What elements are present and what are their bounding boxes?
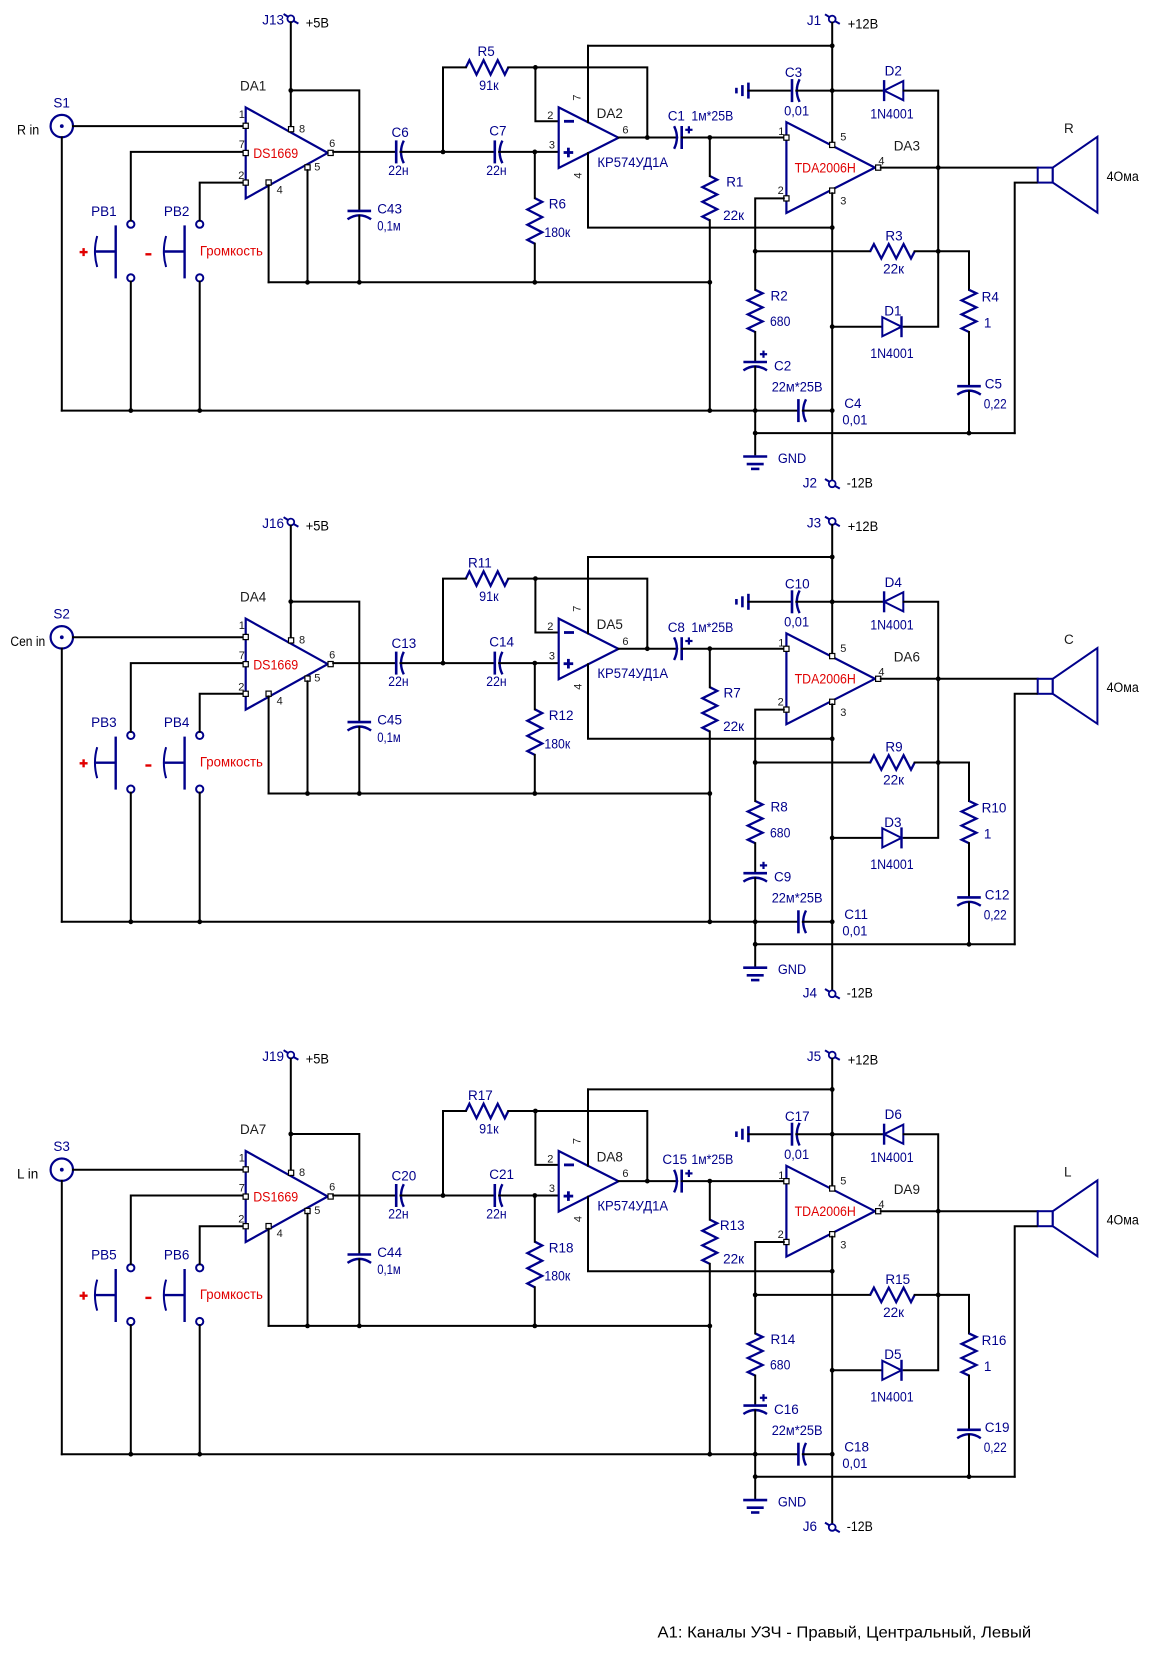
wire <box>199 793 201 922</box>
wire <box>587 557 589 633</box>
wire <box>307 681 309 793</box>
svg-text:4: 4 <box>572 172 584 178</box>
wire <box>269 281 710 283</box>
wire <box>401 662 494 664</box>
svg-text:1: 1 <box>778 126 784 138</box>
svg-text:S3: S3 <box>53 1139 70 1154</box>
resistor R18 <box>527 1240 573 1287</box>
svg-text:3: 3 <box>840 707 846 719</box>
svg-text:0,1м: 0,1м <box>377 730 401 745</box>
svg-text:1N4001: 1N4001 <box>870 1389 914 1404</box>
wire <box>803 410 832 412</box>
svg-text:1: 1 <box>984 1359 992 1374</box>
svg-text:7: 7 <box>239 650 245 662</box>
svg-text:6: 6 <box>622 1168 628 1180</box>
svg-text:D6: D6 <box>885 1107 902 1122</box>
ground <box>736 1126 748 1142</box>
junction <box>357 791 362 796</box>
svg-text:8: 8 <box>299 635 305 647</box>
resistor R4 <box>962 290 1000 333</box>
wire <box>200 183 243 221</box>
wire <box>881 167 1038 169</box>
pin 1 <box>778 126 789 140</box>
capacitor C14 <box>486 635 514 690</box>
wire <box>709 1264 711 1454</box>
wire <box>968 1435 970 1477</box>
wire <box>291 1134 360 1254</box>
capacitor C5 <box>957 376 1007 411</box>
pin 6 <box>328 138 335 155</box>
svg-text:S2: S2 <box>53 607 70 622</box>
wire <box>333 1195 395 1197</box>
wire <box>443 579 466 664</box>
wire <box>619 648 678 650</box>
svg-text:C10: C10 <box>785 576 810 591</box>
junction <box>753 431 758 436</box>
pin 1 <box>239 620 249 640</box>
junction <box>357 1324 362 1329</box>
resistor R11 <box>466 555 508 604</box>
wire <box>401 1195 494 1197</box>
pin 6 <box>328 1182 335 1199</box>
capacitor C11 <box>798 907 868 939</box>
resistor R5 <box>466 44 508 93</box>
svg-text:180к: 180к <box>544 736 570 751</box>
svg-text:R: R <box>1064 121 1074 136</box>
wire <box>796 1133 832 1135</box>
svg-text:0,01: 0,01 <box>784 103 809 118</box>
ground GND <box>743 433 806 469</box>
resistor R14 <box>748 1332 796 1376</box>
capacitor C45 <box>348 713 402 745</box>
wire <box>61 1181 63 1454</box>
svg-text:C7: C7 <box>489 123 506 138</box>
resistor R12 <box>527 708 573 755</box>
svg-text:R17: R17 <box>468 1088 493 1103</box>
wire <box>443 1111 466 1196</box>
svg-text:C9: C9 <box>774 870 791 885</box>
resistor R6 <box>527 197 570 244</box>
svg-text:22н: 22н <box>388 674 408 689</box>
wire <box>904 91 939 168</box>
wire <box>535 1111 558 1165</box>
wire <box>1015 694 1037 945</box>
wire <box>61 137 63 410</box>
junction <box>533 576 538 581</box>
pin 2 <box>238 170 248 185</box>
svg-text:DS1669: DS1669 <box>253 1190 298 1205</box>
pin 3 <box>830 699 847 719</box>
speaker C 4Ома <box>1038 632 1140 724</box>
label - <box>145 253 151 255</box>
wire <box>62 410 799 412</box>
junction <box>197 919 202 924</box>
svg-text:0,01: 0,01 <box>784 615 809 630</box>
push button PB6 <box>164 1248 203 1326</box>
wire <box>904 1134 939 1211</box>
svg-text:DA5: DA5 <box>597 617 623 632</box>
svg-text:R6: R6 <box>549 197 566 212</box>
pin 3 <box>830 188 847 208</box>
wire <box>268 1229 270 1326</box>
svg-text:DA1: DA1 <box>240 78 266 93</box>
svg-text:R5: R5 <box>478 44 495 59</box>
resistor R9 <box>870 740 915 788</box>
svg-text:+5В: +5В <box>306 16 329 31</box>
capacitor C20 <box>388 1169 416 1222</box>
svg-text:-12В: -12В <box>847 476 873 491</box>
wire <box>832 601 884 603</box>
svg-text:PB6: PB6 <box>164 1248 190 1263</box>
svg-text:D1: D1 <box>884 304 901 319</box>
svg-text:+12В: +12В <box>848 17 879 32</box>
svg-text:4: 4 <box>878 667 884 679</box>
wire <box>307 1214 309 1326</box>
resistor R10 <box>962 801 1007 844</box>
wire <box>832 326 882 328</box>
junction <box>753 1452 758 1457</box>
pin 6 label <box>622 1168 628 1180</box>
wire <box>968 1376 970 1430</box>
wire <box>796 90 832 92</box>
svg-text:22к: 22к <box>723 208 744 223</box>
svg-text:4: 4 <box>878 1199 884 1211</box>
label + <box>80 759 88 767</box>
junction <box>707 1452 712 1457</box>
power amplifier DA3 TDA2006H <box>786 122 920 213</box>
junction <box>936 676 941 681</box>
svg-text:А1: Каналы УЗЧ - Правый, Центр: А1: Каналы УЗЧ - Правый, Центральный, Ле… <box>658 1624 1032 1641</box>
svg-text:680: 680 <box>770 314 790 329</box>
junction <box>753 1293 758 1298</box>
wire <box>831 193 833 480</box>
svg-text:6: 6 <box>622 125 628 137</box>
resistor R8 <box>748 800 791 844</box>
junction <box>830 408 835 413</box>
svg-text:3: 3 <box>549 1183 555 1195</box>
pin 1 <box>778 637 789 651</box>
pin 5 <box>830 132 847 148</box>
svg-text:680: 680 <box>770 1358 790 1373</box>
junction <box>288 599 293 604</box>
push button PB1 <box>91 204 134 282</box>
diode D3 1N4001 <box>870 815 914 872</box>
wire <box>200 694 243 732</box>
svg-text:2: 2 <box>778 1229 784 1241</box>
junction <box>707 791 712 796</box>
wire <box>915 1295 969 1334</box>
caption <box>658 1624 1032 1641</box>
svg-text:TDA2006H: TDA2006H <box>795 672 856 687</box>
svg-text:J6: J6 <box>803 1519 817 1534</box>
svg-text:-12В: -12В <box>847 986 873 1001</box>
junction <box>707 135 712 140</box>
junction <box>830 836 835 841</box>
svg-text:0,01: 0,01 <box>784 1147 809 1162</box>
resistor R15 <box>870 1272 915 1320</box>
junction <box>533 1109 538 1114</box>
svg-text:3: 3 <box>840 1239 846 1251</box>
svg-text:C13: C13 <box>392 636 417 651</box>
svg-text:D4: D4 <box>885 575 903 590</box>
svg-text:7: 7 <box>572 1138 584 1144</box>
wire <box>754 367 756 433</box>
svg-text:R16: R16 <box>982 1333 1007 1348</box>
wire <box>499 151 559 153</box>
wire <box>588 556 832 558</box>
svg-text:0,22: 0,22 <box>984 397 1007 412</box>
wire <box>831 1059 833 1186</box>
svg-text:PB5: PB5 <box>91 1248 117 1263</box>
junction <box>707 1324 712 1329</box>
junction <box>830 324 835 329</box>
wire <box>358 216 360 282</box>
svg-text:680: 680 <box>770 825 790 840</box>
svg-text:2: 2 <box>547 110 553 122</box>
svg-text:R18: R18 <box>549 1240 574 1255</box>
connector J5 +12V <box>807 1049 878 1068</box>
junction <box>305 1324 310 1329</box>
svg-text:R9: R9 <box>885 740 902 755</box>
wire <box>968 843 970 897</box>
svg-text:1: 1 <box>239 620 245 632</box>
svg-text:DA9: DA9 <box>894 1182 920 1197</box>
connector J3 +12V <box>807 516 878 535</box>
svg-text:22н: 22н <box>388 1207 408 1222</box>
wire <box>1015 1226 1037 1477</box>
wire <box>508 67 647 137</box>
junction <box>830 1368 835 1373</box>
svg-text:S1: S1 <box>53 95 70 110</box>
svg-text:J1: J1 <box>807 13 821 28</box>
ground GND <box>743 944 806 980</box>
svg-text:5: 5 <box>314 1205 320 1217</box>
digital potentiometer DA1 DS1669 <box>240 78 328 198</box>
svg-text:22к: 22к <box>883 773 904 788</box>
wire <box>535 579 558 633</box>
junction <box>753 919 758 924</box>
capacitor C12 <box>957 888 1009 923</box>
svg-text:4: 4 <box>277 184 283 196</box>
svg-text:4Ома: 4Ома <box>1107 169 1140 184</box>
svg-text:7: 7 <box>239 139 245 151</box>
svg-text:Громкость: Громкость <box>200 244 263 259</box>
junction <box>936 249 941 254</box>
pin 2 label <box>547 1153 553 1165</box>
junction <box>936 165 941 170</box>
svg-text:91к: 91к <box>479 78 499 93</box>
wire <box>508 579 647 649</box>
svg-text:22к: 22к <box>883 1305 904 1320</box>
svg-text:DA7: DA7 <box>240 1122 266 1137</box>
svg-text:C1: C1 <box>668 109 685 124</box>
pin 1 <box>778 1170 789 1184</box>
svg-text:D2: D2 <box>885 64 902 79</box>
wire <box>535 67 558 121</box>
wire <box>754 1295 756 1334</box>
svg-text:+5В: +5В <box>306 519 329 534</box>
pin 2 <box>778 185 789 201</box>
wire <box>709 138 711 177</box>
svg-text:L: L <box>1064 1165 1072 1180</box>
wire <box>333 662 395 664</box>
diode D2 1N4001 <box>870 64 914 122</box>
pin 8 <box>289 1167 306 1179</box>
svg-text:1N4001: 1N4001 <box>870 1150 914 1165</box>
svg-text:R1: R1 <box>726 174 743 189</box>
wire <box>755 1476 1015 1478</box>
svg-text:0,22: 0,22 <box>984 1440 1007 1455</box>
wire <box>130 282 132 411</box>
wire <box>619 1180 678 1182</box>
wire <box>499 1195 559 1197</box>
pin 7 <box>239 139 249 156</box>
junction <box>532 280 537 285</box>
svg-text:0,01: 0,01 <box>842 1456 867 1471</box>
pin 1 <box>239 1153 249 1173</box>
capacitor C19 <box>957 1420 1009 1455</box>
capacitor C15 <box>662 1152 733 1192</box>
pin 4 label <box>572 172 584 178</box>
wire <box>131 152 243 221</box>
capacitor C17 <box>784 1109 810 1162</box>
junction <box>830 919 835 924</box>
pin 7 <box>239 650 249 667</box>
wire <box>968 332 970 386</box>
svg-text:C16: C16 <box>774 1402 799 1417</box>
capacitor C6 <box>388 125 408 178</box>
wire <box>61 649 63 922</box>
wire <box>709 732 711 922</box>
svg-text:22м*25В: 22м*25В <box>772 891 823 906</box>
junction <box>830 1132 835 1137</box>
wire <box>904 602 939 679</box>
connector S1 <box>17 95 73 137</box>
wire <box>333 151 395 153</box>
svg-text:3: 3 <box>840 196 846 208</box>
wire <box>755 250 870 252</box>
svg-text:1: 1 <box>239 1153 245 1165</box>
wire <box>904 679 939 838</box>
wire <box>754 843 756 873</box>
capacitor C13 <box>388 636 416 689</box>
wire <box>534 663 536 709</box>
svg-text:C43: C43 <box>377 201 402 216</box>
wire <box>588 1088 832 1090</box>
resistor R3 <box>870 229 915 277</box>
svg-text:22к: 22к <box>723 1251 744 1266</box>
svg-text:1: 1 <box>778 637 784 649</box>
capacitor C2 <box>743 351 822 395</box>
svg-text:КР574УД1А: КР574УД1А <box>597 1198 668 1213</box>
wire <box>682 648 784 650</box>
resistor R7 <box>702 686 744 734</box>
op-amp DA5 КР574УД1А <box>559 617 668 681</box>
wire <box>803 1453 832 1455</box>
svg-text:6: 6 <box>622 636 628 648</box>
svg-text:TDA2006H: TDA2006H <box>795 1204 856 1219</box>
svg-text:J4: J4 <box>803 986 818 1001</box>
svg-text:22м*25В: 22м*25В <box>772 380 823 395</box>
resistor R1 <box>702 174 744 222</box>
junction <box>128 919 133 924</box>
wire <box>968 902 970 944</box>
svg-text:J13: J13 <box>262 13 284 28</box>
wire <box>755 1294 870 1296</box>
pin 8 <box>289 123 306 135</box>
junction <box>197 1452 202 1457</box>
svg-text:0,01: 0,01 <box>842 924 867 939</box>
junction <box>967 431 972 436</box>
label Громкость <box>200 244 263 259</box>
wire <box>401 151 494 153</box>
wire <box>1015 183 1037 434</box>
junction <box>288 88 293 93</box>
wire <box>291 602 360 722</box>
junction <box>753 942 758 947</box>
svg-text:R4: R4 <box>982 290 1000 305</box>
svg-text:0,22: 0,22 <box>984 908 1007 923</box>
junction <box>532 1324 537 1329</box>
label + <box>80 248 88 256</box>
wire <box>755 710 784 763</box>
wire <box>291 90 360 210</box>
wire <box>307 170 309 282</box>
pin 1 <box>239 109 249 128</box>
junction <box>753 1474 758 1479</box>
connector J1 +12V <box>807 13 878 32</box>
wire <box>682 137 784 139</box>
wire <box>508 1111 647 1181</box>
junction <box>441 150 446 155</box>
push button PB2 <box>164 204 203 282</box>
svg-text:R7: R7 <box>724 686 741 701</box>
pin 5 <box>830 1175 847 1191</box>
wire <box>534 244 536 283</box>
wire <box>499 662 559 664</box>
svg-text:R12: R12 <box>549 708 574 723</box>
pin 3 label <box>549 651 555 663</box>
wire <box>748 601 791 603</box>
wire <box>832 1133 884 1135</box>
junction <box>532 661 537 666</box>
svg-text:1N4001: 1N4001 <box>870 618 914 633</box>
svg-text:C6: C6 <box>392 125 409 140</box>
diode D1 1N4001 <box>870 304 914 361</box>
pin 4 <box>876 1199 885 1214</box>
svg-text:J2: J2 <box>803 476 817 491</box>
junction <box>967 1474 972 1479</box>
wire <box>904 1211 939 1370</box>
svg-text:R14: R14 <box>771 1332 796 1347</box>
svg-text:22к: 22к <box>883 261 904 276</box>
label + <box>80 1292 88 1300</box>
svg-text:Громкость: Громкость <box>200 755 263 770</box>
wire <box>709 649 711 688</box>
junction <box>305 791 310 796</box>
junction <box>707 280 712 285</box>
svg-text:+5В: +5В <box>306 1052 329 1067</box>
pin 2 label <box>547 621 553 633</box>
pin 4 <box>876 667 885 682</box>
svg-text:R8: R8 <box>771 800 788 815</box>
pin 3 <box>830 1232 847 1252</box>
svg-text:C2: C2 <box>774 359 791 374</box>
wire <box>268 696 270 793</box>
svg-text:1: 1 <box>984 827 992 842</box>
pin 7 label <box>572 94 584 100</box>
wire <box>587 1089 589 1165</box>
